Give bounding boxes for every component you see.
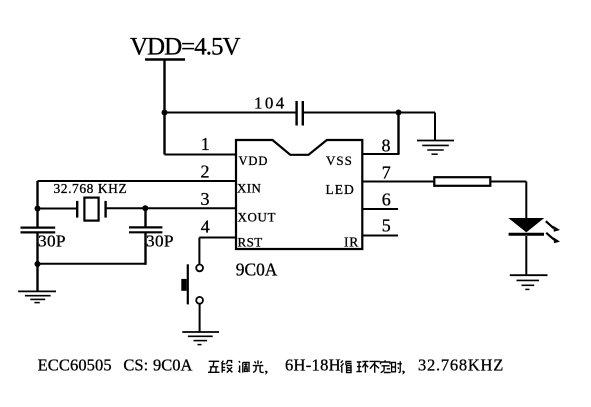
svg-text:104: 104 <box>254 94 287 113</box>
wire down to LED <box>525 182 527 219</box>
wire pin 7 LED <box>362 181 434 183</box>
wire left cap to ground <box>36 232 38 291</box>
svg-text:4: 4 <box>201 216 210 236</box>
svg-text:CS:: CS: <box>123 356 148 375</box>
svg-text:5: 5 <box>382 216 391 236</box>
wire VDD node to capacitor C1 <box>165 112 297 114</box>
svg-text:6: 6 <box>382 190 391 210</box>
resistor R1 <box>434 177 490 186</box>
wire VDD vertical to pin 1 <box>163 60 165 155</box>
ground (button) <box>182 332 219 345</box>
wire pin 1 <box>165 154 237 156</box>
pushbutton SW1 top terminal <box>196 265 203 272</box>
IC U1 9C0A body <box>236 140 362 249</box>
wire pin 6 stub <box>362 208 398 210</box>
svg-text:IR: IR <box>344 235 359 250</box>
ground (LED) <box>510 275 548 289</box>
caption Chinese 循环不定时， <box>341 360 405 374</box>
crystal Y1 <box>77 198 105 221</box>
wire LED to ground <box>525 236 527 275</box>
LED emission arrow 2 <box>546 233 560 244</box>
wire pin 2 XIN <box>38 180 237 182</box>
LED D1 triangle <box>508 218 544 232</box>
wire down to ground symbol <box>434 113 436 141</box>
svg-text:VDD=4.5V: VDD=4.5V <box>130 34 241 61</box>
pushbutton SW1 actuator <box>181 279 186 291</box>
wire resistor to corner <box>490 181 526 183</box>
svg-text:XOUT: XOUT <box>238 210 277 225</box>
capacitor C1 104 <box>297 101 303 126</box>
svg-text:9C0A: 9C0A <box>236 259 278 279</box>
svg-text:8: 8 <box>382 136 391 156</box>
svg-text:32.768KHZ: 32.768KHZ <box>418 356 504 375</box>
svg-text:30P: 30P <box>38 231 66 250</box>
LED emission arrow 1 <box>546 221 560 232</box>
wire crystal right <box>106 207 145 209</box>
wire right cap top <box>144 208 146 227</box>
wire RST drop <box>198 238 200 265</box>
wire button to ground <box>199 304 201 332</box>
wire right cap bottom <box>144 232 146 264</box>
svg-text:1: 1 <box>201 134 210 154</box>
wire crystal left <box>38 208 78 210</box>
svg-text:6H-18H: 6H-18H <box>285 356 341 375</box>
wire bottom across <box>38 263 146 265</box>
wire VSS riser <box>397 113 399 155</box>
capacitor C2 30P left <box>21 228 56 233</box>
wire pin 5 stub <box>362 235 398 237</box>
wire ground node to right <box>399 112 436 114</box>
caption Chinese 五段调光， <box>208 360 268 374</box>
svg-text:LED: LED <box>326 182 355 197</box>
junction crystal right <box>142 205 148 211</box>
power rail bar <box>145 58 185 60</box>
svg-text:ECC60505: ECC60505 <box>38 356 112 375</box>
ground (top right) <box>417 141 454 155</box>
capacitor C3 30P right <box>129 227 162 232</box>
svg-text:VSS: VSS <box>326 153 353 168</box>
svg-text:RST: RST <box>238 235 263 250</box>
wire pin 3 XOUT <box>145 207 236 209</box>
junction VDD node <box>162 110 168 116</box>
wire capacitor C1 to ground node <box>303 112 399 114</box>
junction crystal left <box>35 206 41 212</box>
wire pin 4 RST <box>199 237 236 239</box>
svg-text:2: 2 <box>201 162 210 182</box>
svg-text:30P: 30P <box>146 231 174 250</box>
svg-text:32.768 KHZ: 32.768 KHZ <box>54 181 128 196</box>
svg-text:3: 3 <box>201 189 210 209</box>
svg-text:XIN: XIN <box>237 181 262 196</box>
wire pin 8 stub <box>362 153 399 155</box>
pushbutton SW1 bottom terminal <box>196 297 203 304</box>
svg-text:VDD: VDD <box>239 154 269 168</box>
wire XIN drop <box>36 181 38 228</box>
svg-text:9C0A: 9C0A <box>153 356 193 375</box>
ground (crystal) <box>18 291 56 302</box>
junction ground node <box>396 110 402 116</box>
svg-text:7: 7 <box>382 163 391 183</box>
LED D1 cathode bar <box>509 233 544 236</box>
pushbutton SW1 bar <box>187 264 189 304</box>
junction bottom left <box>35 261 41 267</box>
